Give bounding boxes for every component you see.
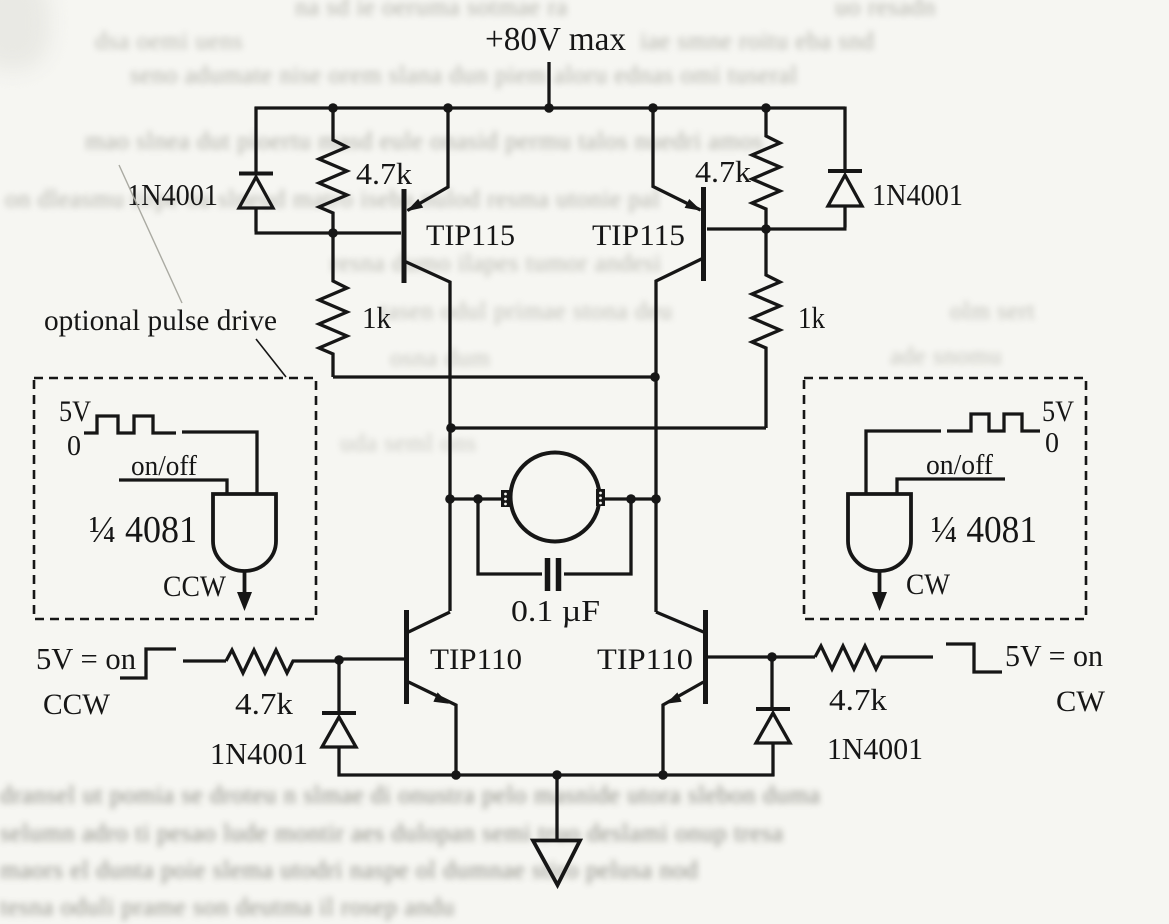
svg-text:5V = on: 5V = on: [1005, 638, 1103, 673]
wire on/off to gate right box: [897, 479, 1005, 494]
junction dot cross B on left collector: [446, 423, 456, 433]
svg-text:0: 0: [1045, 428, 1059, 459]
junction dots motor nodes: [445, 494, 661, 504]
svg-text:1k: 1k: [798, 300, 825, 335]
falling edge symbol right input: [946, 644, 1002, 672]
junction dot left base node: [334, 655, 344, 665]
svg-text:5V: 5V: [59, 395, 91, 428]
svg-text:on/off: on/off: [131, 450, 197, 482]
svg-text:1N4001: 1N4001: [127, 177, 218, 212]
wire left bus drop to diode: [254, 107, 257, 174]
svg-text:+80V max: +80V max: [485, 21, 626, 58]
wire cross A: left 1k bottom to right collector: [333, 375, 656, 378]
capacitor 0.1uF: [478, 499, 631, 591]
svg-text:TIP115: TIP115: [426, 219, 515, 252]
transistor TIP110 right (NPN): [656, 610, 772, 774]
wire ground rail: [338, 773, 775, 776]
diode 1N4001 right upper: [766, 171, 862, 229]
diode 1N4001 right lower: [756, 657, 790, 777]
diode 1N4001 left upper: [239, 174, 333, 234]
resistor 1k left: [319, 233, 347, 377]
pulse waveform left box: [84, 416, 176, 433]
svg-text:0: 0: [67, 431, 81, 462]
svg-text:CCW: CCW: [163, 570, 227, 603]
svg-text:CW: CW: [906, 568, 951, 601]
svg-text:CCW: CCW: [43, 688, 111, 721]
svg-text:TIP110: TIP110: [430, 643, 522, 676]
wire pulse to gate right box: [866, 431, 941, 494]
svg-text:1N4001: 1N4001: [827, 731, 923, 766]
svg-text:1k: 1k: [362, 300, 391, 335]
resistor 4.7k right lower (horizontal): [815, 646, 933, 669]
pulse waveform right box: [947, 414, 1040, 431]
svg-text:1N4001: 1N4001: [210, 736, 308, 771]
svg-text:5V = on: 5V = on: [36, 641, 136, 676]
wire supply stem: [547, 62, 550, 108]
junction dots ground rail: [451, 770, 668, 780]
junction dots on bus: [328, 103, 771, 113]
svg-text:TIP110: TIP110: [597, 643, 693, 676]
junction dot right base node: [767, 652, 777, 662]
svg-text:4.7k: 4.7k: [235, 686, 294, 721]
wire base left TIP115: [333, 231, 401, 234]
wire top supply bus: [255, 106, 845, 109]
svg-text:on/off: on/off: [926, 449, 993, 481]
svg-text:TIP115: TIP115: [592, 219, 685, 252]
diode 1N4001 left lower: [322, 660, 356, 777]
transistor TIP110 left (NPN): [339, 610, 456, 775]
wire cross B: right 1k bottom to left collector: [450, 426, 766, 429]
resistor 4.7k left lower (horizontal): [226, 650, 339, 673]
svg-text:5V: 5V: [1042, 395, 1074, 428]
pointer line from label to left box: [256, 339, 286, 377]
wire base right TIP115: [707, 227, 766, 230]
svg-text:CW: CW: [1056, 685, 1106, 718]
svg-text:¼ 4081: ¼ 4081: [89, 509, 197, 551]
wire right base to resistor: [772, 655, 815, 658]
resistor 4.7k right upper: [752, 108, 780, 229]
svg-text:4.7k: 4.7k: [695, 154, 752, 189]
AND gate 1/4 4081 left (points down): [213, 494, 276, 611]
resistor 4.7k left upper: [319, 108, 347, 233]
junction node base right TIP115: [761, 224, 771, 234]
wire on/off to gate left box: [119, 480, 227, 494]
svg-text:1N4001: 1N4001: [872, 177, 963, 212]
AND gate 1/4 4081 right (points down): [848, 494, 911, 611]
wire left input to resistor: [183, 659, 226, 662]
svg-text:optional pulse drive: optional pulse drive: [44, 304, 277, 337]
rising edge symbol left input: [120, 649, 176, 678]
wire right bus drop to diode: [843, 107, 846, 171]
svg-text:4.7k: 4.7k: [829, 682, 888, 717]
scanned page bleed-through background: [295, 0, 568, 22]
dashed box right (optional pulse drive CW): [804, 378, 1086, 619]
junction dot cross A on right collector: [650, 372, 660, 382]
dashed box left (optional pulse drive CCW): [34, 378, 316, 619]
transistor TIP115 left (PNP): [404, 108, 450, 611]
wire pulse to gate left box: [182, 432, 257, 494]
svg-text:¼ 4081: ¼ 4081: [931, 509, 1037, 551]
corner shadow: [0, 0, 50, 70]
transistor TIP115 right (PNP): [653, 108, 704, 612]
motor M (DC motor): [450, 453, 656, 542]
ground symbol: [533, 775, 580, 885]
resistor 1k right: [752, 229, 780, 428]
svg-text:4.7k: 4.7k: [356, 156, 413, 191]
junction node base left TIP115: [328, 228, 338, 238]
scan crease line: [119, 165, 182, 303]
svg-text:0.1 µF: 0.1 µF: [511, 593, 600, 628]
